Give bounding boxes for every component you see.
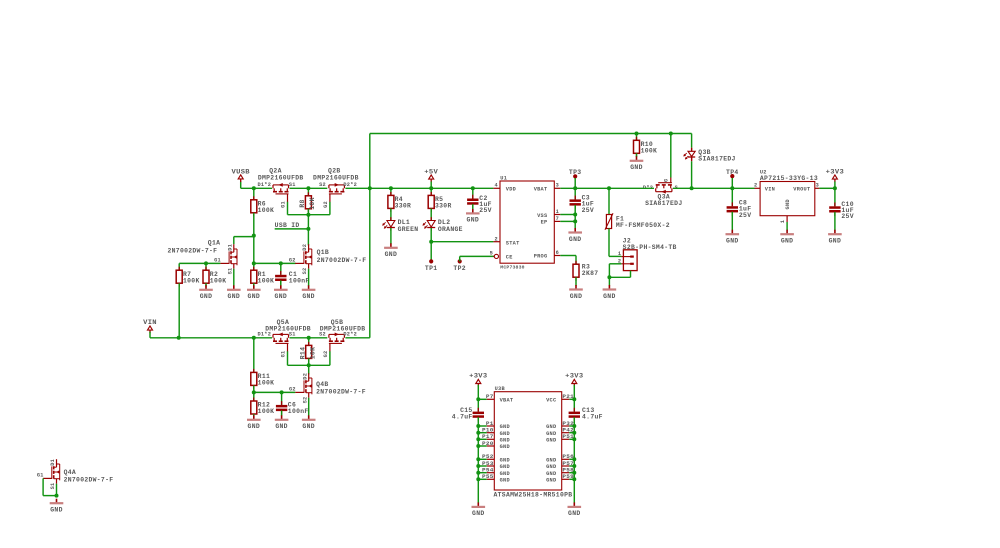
svg-text:P55: P55 xyxy=(482,473,494,480)
svg-text:GND: GND xyxy=(500,444,510,450)
svg-text:G1: G1 xyxy=(280,201,286,208)
svg-text:SIA817EDJ: SIA817EDJ xyxy=(645,200,682,207)
svg-text:P21: P21 xyxy=(562,393,574,400)
svg-text:100K: 100K xyxy=(258,408,275,415)
svg-text:DMP2160UFDB: DMP2160UFDB xyxy=(313,174,359,181)
svg-text:GND: GND xyxy=(302,293,315,300)
svg-text:25V: 25V xyxy=(582,207,595,214)
svg-text:GND: GND xyxy=(248,293,261,300)
svg-text:S1: S1 xyxy=(289,182,296,188)
svg-text:100nF: 100nF xyxy=(289,277,310,284)
svg-text:GND: GND xyxy=(569,236,582,243)
svg-text:S1: S1 xyxy=(289,331,296,337)
svg-text:2N7002DW-7-F: 2N7002DW-7-F xyxy=(316,389,366,396)
svg-text:G2: G2 xyxy=(289,387,296,393)
svg-text:EP: EP xyxy=(541,220,548,226)
svg-text:GND: GND xyxy=(200,293,213,300)
svg-text:GND: GND xyxy=(472,510,485,517)
svg-text:GND: GND xyxy=(546,437,556,443)
svg-text:4: 4 xyxy=(494,183,498,189)
svg-text:3: 3 xyxy=(556,183,559,189)
svg-text:G2: G2 xyxy=(289,258,296,264)
svg-text:D2: D2 xyxy=(302,373,308,380)
svg-text:U3B: U3B xyxy=(495,386,506,392)
svg-text:GND: GND xyxy=(546,424,556,430)
svg-text:D1: D1 xyxy=(227,244,233,251)
svg-text:GND: GND xyxy=(248,423,261,430)
svg-text:TP3: TP3 xyxy=(569,169,582,176)
svg-text:TP4: TP4 xyxy=(726,169,739,176)
svg-text:D1: D1 xyxy=(50,459,56,466)
svg-text:100nF: 100nF xyxy=(288,408,309,415)
svg-text:1: 1 xyxy=(556,209,559,215)
svg-text:MF-FSMF050X-2: MF-FSMF050X-2 xyxy=(616,222,670,229)
svg-text:+3V3: +3V3 xyxy=(565,373,583,380)
svg-text:6: 6 xyxy=(556,250,559,256)
svg-text:100K: 100K xyxy=(258,379,275,386)
svg-text:S1: S1 xyxy=(50,483,56,490)
svg-text:GND: GND xyxy=(785,199,791,209)
svg-text:GND: GND xyxy=(603,293,616,300)
svg-text:330R: 330R xyxy=(395,202,412,209)
svg-text:Q1A: Q1A xyxy=(208,240,221,247)
svg-text:GND: GND xyxy=(467,217,480,224)
svg-text:+5V: +5V xyxy=(424,168,438,175)
svg-text:P20: P20 xyxy=(482,440,494,447)
svg-text:VUSB: VUSB xyxy=(232,168,250,175)
svg-text:G2: G2 xyxy=(323,201,329,208)
svg-text:S2: S2 xyxy=(302,397,308,404)
svg-text:GND: GND xyxy=(500,471,510,477)
svg-text:GND: GND xyxy=(500,464,510,470)
svg-text:GND: GND xyxy=(568,510,581,517)
svg-text:U1: U1 xyxy=(500,176,507,182)
svg-text:Q1B: Q1B xyxy=(317,249,330,256)
svg-text:GND: GND xyxy=(546,431,556,437)
svg-text:USB ID: USB ID xyxy=(275,222,300,229)
svg-text:100K: 100K xyxy=(183,277,200,284)
svg-text:STAT: STAT xyxy=(506,240,520,246)
svg-text:1: 1 xyxy=(780,220,786,223)
svg-text:330R: 330R xyxy=(435,202,452,209)
svg-text:S2: S2 xyxy=(319,331,326,337)
svg-text:DMP2160UFDB: DMP2160UFDB xyxy=(258,174,304,181)
svg-text:GND: GND xyxy=(302,423,315,430)
svg-text:VCC: VCC xyxy=(546,398,557,404)
svg-text:25V: 25V xyxy=(739,212,752,219)
svg-text:SIA817EDJ: SIA817EDJ xyxy=(698,155,735,162)
svg-text:G1: G1 xyxy=(214,258,221,264)
svg-text:100K: 100K xyxy=(210,277,227,284)
svg-text:4.7uF: 4.7uF xyxy=(452,413,473,420)
svg-text:10K: 10K xyxy=(309,197,316,210)
svg-text:TP1: TP1 xyxy=(425,265,438,272)
svg-text:100K: 100K xyxy=(258,277,275,284)
svg-text:D1*2: D1*2 xyxy=(257,331,271,337)
svg-text:GND: GND xyxy=(500,457,510,463)
svg-text:AP7215-33YG-13: AP7215-33YG-13 xyxy=(760,175,818,182)
svg-text:VDD: VDD xyxy=(506,187,516,193)
svg-text:3: 3 xyxy=(816,182,819,188)
svg-text:+3V3: +3V3 xyxy=(826,168,844,175)
svg-text:G1: G1 xyxy=(37,473,44,479)
svg-text:1: 1 xyxy=(618,251,621,257)
svg-text:2K87: 2K87 xyxy=(582,270,599,277)
svg-text:4.7uF: 4.7uF xyxy=(582,413,603,420)
svg-text:GND: GND xyxy=(570,293,583,300)
svg-text:+3V3: +3V3 xyxy=(469,373,487,380)
svg-text:Q4B: Q4B xyxy=(316,381,329,388)
svg-text:VROUT: VROUT xyxy=(793,187,811,193)
svg-text:Q4A: Q4A xyxy=(64,469,77,476)
svg-text:2N7002DW-7-F: 2N7002DW-7-F xyxy=(64,477,114,484)
svg-text:GND: GND xyxy=(500,431,510,437)
svg-text:P51: P51 xyxy=(562,433,574,440)
svg-text:GND: GND xyxy=(275,293,288,300)
svg-text:D2*2: D2*2 xyxy=(343,331,357,337)
svg-text:GND: GND xyxy=(630,164,643,171)
svg-text:GND: GND xyxy=(829,238,842,245)
svg-text:GND: GND xyxy=(546,471,556,477)
svg-text:25V: 25V xyxy=(841,213,854,220)
svg-text:GND: GND xyxy=(50,507,63,514)
svg-text:GND: GND xyxy=(726,238,739,245)
svg-text:10K: 10K xyxy=(309,347,316,360)
svg-text:7: 7 xyxy=(556,216,559,222)
svg-text:ORANGE: ORANGE xyxy=(438,226,463,233)
svg-text:G: G xyxy=(663,179,669,182)
svg-text:GREEN: GREEN xyxy=(398,226,419,233)
svg-text:R8: R8 xyxy=(299,199,306,207)
svg-text:GND: GND xyxy=(228,293,241,300)
svg-text:2N7002DW-7-F: 2N7002DW-7-F xyxy=(168,247,218,254)
svg-text:2: 2 xyxy=(494,236,497,242)
svg-text:R14: R14 xyxy=(299,347,306,360)
svg-text:GND: GND xyxy=(275,423,288,430)
svg-text:TP2: TP2 xyxy=(453,265,466,272)
svg-text:MCP73830: MCP73830 xyxy=(500,264,524,270)
svg-text:GND: GND xyxy=(385,251,398,258)
svg-text:GND: GND xyxy=(546,464,556,470)
svg-text:D2*2: D2*2 xyxy=(343,182,357,188)
svg-text:GND: GND xyxy=(781,238,794,245)
svg-text:ATSAMW25H18-MR510PB: ATSAMW25H18-MR510PB xyxy=(494,491,573,498)
svg-text:GND: GND xyxy=(500,424,510,430)
svg-text:VBAT: VBAT xyxy=(534,187,548,193)
svg-text:CE: CE xyxy=(506,255,513,261)
svg-text:5: 5 xyxy=(490,251,493,257)
svg-text:2N7002DW-7-F: 2N7002DW-7-F xyxy=(317,257,367,264)
svg-text:S2: S2 xyxy=(319,182,326,188)
svg-text:PROG: PROG xyxy=(534,254,548,260)
svg-text:VBAT: VBAT xyxy=(500,398,514,404)
svg-text:100K: 100K xyxy=(258,207,275,214)
svg-text:D1*2: D1*2 xyxy=(257,182,271,188)
svg-text:GND: GND xyxy=(500,477,510,483)
svg-text:S2: S2 xyxy=(302,268,308,275)
svg-text:VSS: VSS xyxy=(537,213,548,219)
svg-text:100K: 100K xyxy=(641,147,658,154)
svg-text:G2: G2 xyxy=(323,351,329,358)
svg-text:S2B-PH-SM4-TB: S2B-PH-SM4-TB xyxy=(623,244,677,251)
svg-text:GND: GND xyxy=(500,437,510,443)
svg-text:P59: P59 xyxy=(562,473,574,480)
svg-text:VIN: VIN xyxy=(765,187,775,193)
svg-text:25V: 25V xyxy=(479,207,492,214)
svg-text:P7: P7 xyxy=(486,393,494,400)
svg-text:2: 2 xyxy=(754,182,757,188)
svg-text:D2: D2 xyxy=(302,244,308,251)
svg-text:G1: G1 xyxy=(280,351,286,358)
svg-text:S1: S1 xyxy=(227,268,233,275)
svg-text:GND: GND xyxy=(546,457,556,463)
svg-text:GND: GND xyxy=(546,477,556,483)
